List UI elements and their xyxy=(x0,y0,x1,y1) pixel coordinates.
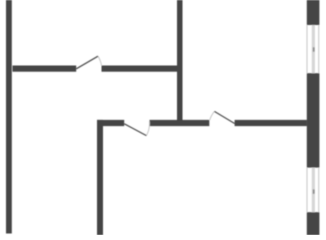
wall center vertical xyxy=(177,0,183,126)
wall left exterior xyxy=(6,0,12,234)
door D1 leaf xyxy=(76,56,98,69)
wall middle horizontal segment A xyxy=(97,120,124,126)
wall upper horizontal right segment xyxy=(102,66,183,72)
wall upper horizontal left segment xyxy=(13,66,77,72)
wall right exterior middle segment xyxy=(307,73,320,167)
door D2 swing arc xyxy=(146,121,149,135)
wall bottom center vertical xyxy=(97,120,103,235)
wall middle horizontal segment C xyxy=(235,120,307,126)
door D3 leaf xyxy=(214,111,234,123)
wall right exterior bottom segment xyxy=(307,212,320,235)
wall right exterior top segment xyxy=(307,0,320,25)
wall middle horizontal segment B xyxy=(150,120,210,126)
door D1 swing arc xyxy=(98,56,102,65)
window W1 xyxy=(307,25,319,73)
window W2 xyxy=(307,168,319,213)
door D3 swing arc xyxy=(210,111,215,120)
door D2 leaf xyxy=(124,124,146,136)
